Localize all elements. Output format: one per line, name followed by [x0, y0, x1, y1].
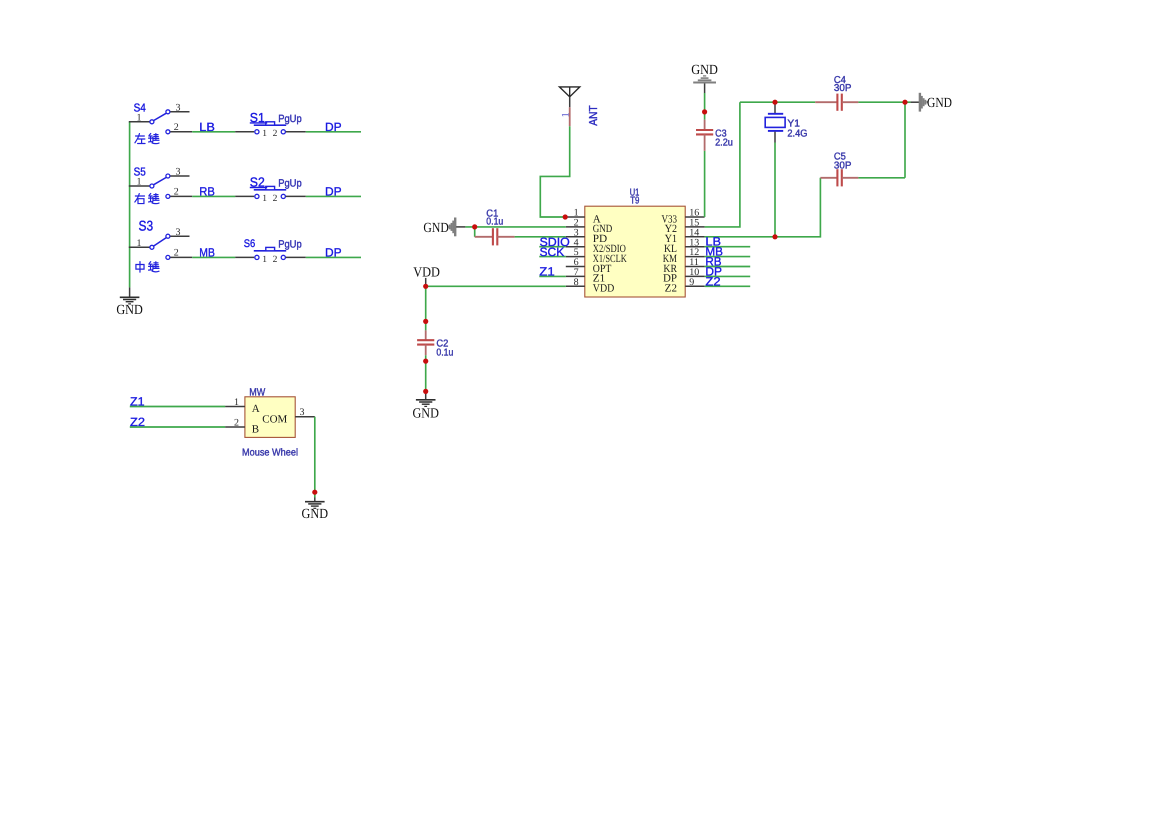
capacitor C2 — [417, 321, 434, 355]
wire net SDIO stub — [539, 246, 566, 248]
IC U1 pin name Y1 — [665, 233, 677, 245]
net label LB (U1 right) — [705, 235, 721, 249]
net label Z2 (U1 right) — [705, 274, 721, 288]
svg-text:VDD: VDD — [413, 266, 440, 281]
pushbutton S1 pin numbers 1 2 — [262, 129, 277, 139]
svg-text:LB: LB — [199, 120, 215, 134]
wire U1 pin 15 to top rail — [705, 102, 740, 227]
pushbutton S6 — [235, 247, 306, 259]
net label DP (U1 right) — [705, 264, 722, 278]
svg-text:COM: COM — [262, 414, 287, 426]
svg-text:2: 2 — [273, 129, 278, 139]
antenna pin 1 lead — [569, 107, 571, 126]
net label MB (U1 right) — [705, 245, 723, 259]
net label DP row 2 — [325, 184, 342, 198]
svg-text:GND: GND — [423, 221, 448, 236]
junction C2 bottom — [423, 359, 428, 364]
pushbutton S2 label PgUp — [278, 177, 302, 189]
IC U1 pin 15 number — [689, 218, 699, 229]
wire C4 to right GND — [858, 101, 905, 103]
IC U1 pin 11 number — [689, 257, 699, 268]
IC U1 pin 11 stub — [685, 266, 704, 268]
IC U1 pin 14 number — [689, 227, 699, 238]
svg-text:Mouse Wheel: Mouse Wheel — [242, 447, 298, 458]
IC U1 pin 6 number — [574, 257, 579, 268]
capacitor C5 value 30P — [834, 160, 852, 171]
IC U1 pin 5 stub — [566, 256, 585, 258]
capacitor C1 value 0.1u — [486, 217, 503, 228]
svg-text:2.2u: 2.2u — [715, 137, 733, 148]
wire antenna to U1 pin 1 — [540, 126, 569, 217]
junction C2 top — [423, 319, 428, 324]
wire C5 to right GND drop — [858, 102, 905, 178]
IC U1 pin name KR — [663, 263, 677, 275]
MW pin 2 number — [234, 418, 239, 429]
svg-text:Z2: Z2 — [130, 415, 145, 429]
IC U1 pin 16 stub — [685, 216, 704, 218]
IC U1 designator — [630, 187, 640, 198]
net label DP row 3 — [325, 245, 342, 259]
wire net RB — [192, 195, 235, 197]
IC U1 pin 6 stub — [566, 266, 585, 268]
antenna pin name ANT (rotated) — [588, 105, 600, 126]
IC U1 pin 8 stub — [566, 285, 585, 287]
IC U1 pin 7 number — [574, 267, 579, 278]
svg-text:8: 8 — [574, 277, 579, 288]
IC U1 pin name KL — [664, 243, 677, 255]
pushbutton S2 pin numbers 1 2 — [262, 194, 277, 204]
net label Z1 (MW) — [130, 395, 145, 409]
net label SCK — [540, 245, 565, 259]
MW pin name COM — [262, 414, 287, 426]
svg-text:PgUp: PgUp — [278, 238, 302, 250]
IC U1 pin 4 number — [574, 237, 579, 248]
pushbutton S2 — [235, 186, 306, 198]
net label RB (U1 right) — [705, 255, 721, 269]
switch S3 — [129, 234, 192, 259]
capacitor C2 designator — [436, 338, 448, 349]
junction VDD — [423, 284, 428, 289]
svg-text:1: 1 — [234, 397, 239, 408]
svg-text:DP: DP — [325, 245, 342, 259]
svg-text:ANT: ANT — [588, 105, 600, 126]
wire C1 to U1 pin 3 — [515, 236, 566, 238]
svg-text:PgUp: PgUp — [278, 113, 302, 125]
MW pin name A — [252, 403, 260, 415]
wire net MB — [192, 256, 235, 258]
switch S5 chinese label — [135, 194, 145, 204]
IC U1 pin name Z2 — [665, 283, 677, 295]
switch S4 pin number 3 — [176, 102, 181, 113]
svg-text:3: 3 — [176, 227, 181, 238]
svg-text:S6: S6 — [244, 238, 256, 250]
wire VDD down to C2 — [425, 286, 427, 321]
power port GND (left of C1) — [423, 218, 465, 237]
IC U1 pin 3 number — [574, 227, 579, 238]
wire GND bus vertical (left) — [129, 122, 131, 288]
IC U1 pin name Z1 — [593, 273, 605, 285]
crystal Y1 — [765, 102, 785, 142]
IC U1 pin name DP — [663, 273, 677, 285]
switch S3 pin number 2 — [174, 247, 179, 258]
svg-text:1: 1 — [137, 177, 142, 188]
net label SDIO — [540, 235, 570, 249]
svg-text:Z2: Z2 — [665, 283, 677, 295]
capacitor C5 — [820, 169, 858, 186]
junction Y1 top — [772, 100, 777, 105]
crystal Y1 value 2.4G — [787, 128, 807, 139]
switch S5 pin number 1 — [137, 177, 142, 188]
svg-text:GND: GND — [412, 407, 439, 422]
wire net DP row 3 — [306, 256, 361, 258]
junction right GND — [902, 100, 907, 105]
IC U1 pin name KM — [663, 253, 677, 265]
wire C1 tap drop — [474, 227, 476, 237]
svg-text:Z1: Z1 — [130, 395, 145, 409]
switch S5 pin number 3 — [176, 167, 181, 178]
svg-text:30P: 30P — [834, 83, 852, 94]
svg-text:2: 2 — [273, 255, 278, 265]
wire net SCK stub — [539, 256, 566, 258]
IC U1 pin 1 number — [574, 208, 579, 219]
switch S5 pin number 2 — [174, 186, 179, 197]
IC U1 pin name PD — [593, 233, 607, 245]
switch S3 designator — [139, 217, 154, 233]
net label Z1 (U1) — [539, 265, 555, 279]
svg-text:2: 2 — [174, 122, 179, 133]
svg-text:GND: GND — [116, 303, 143, 318]
switch S4 pin number 2 — [174, 122, 179, 133]
net label RB — [199, 184, 215, 198]
MW comment Mouse Wheel — [242, 447, 298, 458]
antenna pin number 1 (rotated) — [560, 112, 571, 117]
crystal Y1 designator — [787, 119, 800, 130]
svg-text:3: 3 — [176, 167, 181, 178]
wire top GND to C3 — [704, 93, 706, 120]
wire net Z2 (to MW pin 2) — [130, 426, 225, 428]
capacitor C1 designator — [486, 208, 498, 219]
wire GND to U1 pin 2 — [465, 226, 565, 228]
switch S3 pin number 1 — [137, 238, 142, 249]
wire net DP stub (U1 right) — [705, 275, 751, 277]
svg-text:3: 3 — [176, 102, 181, 113]
wire net DP row 1 — [306, 131, 361, 133]
MW pin 3 number — [300, 407, 305, 418]
IC U1 pin 2 number — [574, 218, 579, 229]
IC U1 value T9 — [630, 196, 640, 207]
svg-text:2: 2 — [273, 194, 278, 204]
IC U1 pin 8 number — [574, 277, 579, 288]
chinese jian glyph — [149, 193, 159, 203]
svg-text:VDD: VDD — [593, 283, 615, 295]
IC U1 pin name A — [593, 213, 601, 225]
ground GND (mouse wheel) — [302, 498, 329, 523]
pushbutton S6 pin numbers 1 2 — [262, 255, 277, 265]
svg-text:MW: MW — [249, 387, 265, 399]
IC U1 pin 9 stub — [685, 285, 704, 287]
MW pin 1 number — [234, 397, 239, 408]
chinese jian glyph — [149, 133, 159, 143]
switch S4 designator — [134, 102, 147, 114]
wire C2 to ground — [425, 355, 427, 391]
svg-text:1: 1 — [137, 238, 142, 249]
svg-text:DP: DP — [325, 120, 342, 134]
net label DP row 1 — [325, 120, 342, 134]
net label MB — [199, 245, 215, 259]
svg-text:GND: GND — [302, 507, 329, 522]
capacitor C2 value 0.1u — [436, 347, 453, 358]
wire net Z2 stub (U1 right) — [705, 285, 751, 287]
IC U1 pin 1 stub — [566, 216, 585, 218]
wire net Z1 stub (U1 pin 7) — [539, 275, 566, 277]
IC U1 pin 10 number — [689, 267, 699, 278]
wire net MB stub (U1 right) — [705, 256, 751, 258]
switch S3 pin number 3 — [176, 227, 181, 238]
net label Z2 (MW) — [130, 415, 145, 429]
pushbutton S6 designator — [244, 238, 256, 250]
capacitor C4 value 30P — [834, 83, 852, 94]
wire top rail — [740, 101, 815, 103]
svg-text:1: 1 — [560, 112, 571, 117]
IC U1 pin 15 stub — [685, 226, 704, 228]
IC U1 pin 7 stub — [566, 275, 585, 277]
svg-text:MB: MB — [199, 245, 215, 259]
chinese jian glyph — [149, 262, 159, 272]
junction MW ground — [312, 490, 317, 495]
svg-text:0.1u: 0.1u — [486, 217, 503, 228]
wire U1 pin 14 to C5 — [705, 178, 821, 237]
svg-text:PgUp: PgUp — [278, 177, 302, 189]
IC U1 pin 16 number — [689, 208, 699, 219]
wire C3 to U1 pin 16 — [704, 151, 706, 217]
wire MW COM to ground — [314, 417, 316, 498]
pushbutton S2 designator — [250, 175, 267, 190]
wire net DP row 2 — [306, 195, 361, 197]
IC U1 pin 10 stub — [685, 275, 704, 277]
svg-text:0.1u: 0.1u — [436, 347, 453, 358]
IC U1 pin name GND — [593, 223, 613, 235]
IC U1 pin name X1/SCLK — [593, 253, 627, 265]
pushbutton S1 designator — [250, 110, 267, 125]
svg-text:B: B — [252, 424, 259, 436]
svg-text:9: 9 — [689, 277, 694, 288]
IC U1 pin 13 stub — [685, 246, 704, 248]
net label LB — [199, 120, 215, 134]
switch S4 chinese label — [135, 134, 145, 144]
capacitor C3 value 2.2u — [715, 137, 733, 148]
power port VDD — [413, 266, 440, 287]
ground GND (switch bus) — [116, 287, 143, 318]
IC U1 pin 4 stub — [566, 246, 585, 248]
svg-text:S3: S3 — [139, 217, 154, 233]
wire net RB stub (U1 right) — [705, 266, 751, 268]
IC U1 pin 14 stub — [685, 236, 704, 238]
switch S5 designator — [134, 167, 146, 179]
junction U1 pin 1 — [563, 214, 568, 219]
MW pin name B — [252, 424, 259, 436]
junction C1 tap — [472, 224, 477, 229]
IC U1 pin name X2/SDIO — [593, 243, 626, 255]
wire net LB stub (U1 right) — [705, 246, 751, 248]
svg-text:2: 2 — [174, 247, 179, 258]
svg-text:1: 1 — [137, 112, 142, 123]
svg-text:Z2: Z2 — [705, 274, 721, 288]
encoder MW (Mouse Wheel) — [225, 397, 315, 438]
IC U1 pin 2 stub — [566, 226, 585, 228]
IC U1 pin 12 number — [689, 247, 699, 258]
switch S5 — [129, 174, 192, 198]
svg-text:2: 2 — [174, 186, 179, 197]
svg-text:GND: GND — [927, 96, 952, 111]
wire Y1 to U1 pin 14 rail — [774, 143, 776, 237]
junction C3 top — [702, 109, 707, 114]
IC U1 pin name Y2 — [665, 223, 677, 235]
capacitor C4 — [815, 94, 858, 111]
svg-text:T9: T9 — [630, 196, 640, 207]
IC U1 pin 9 number — [689, 277, 694, 288]
pushbutton S1 — [235, 122, 306, 134]
junction GND (below C2) — [423, 389, 428, 394]
svg-text:SCK: SCK — [540, 245, 565, 259]
IC U1 body — [585, 206, 685, 297]
capacitor C5 designator — [834, 152, 846, 163]
svg-text:RB: RB — [199, 184, 215, 198]
svg-text:30P: 30P — [834, 160, 852, 171]
IC U1 pin 3 stub — [566, 236, 585, 238]
svg-text:2.4G: 2.4G — [787, 128, 807, 139]
IC U1 pin name VDD — [593, 283, 615, 295]
wire net LB — [192, 131, 235, 133]
antenna ANT — [559, 87, 579, 107]
svg-text:Z1: Z1 — [539, 265, 555, 279]
svg-text:1: 1 — [262, 194, 267, 204]
switch S3 chinese label — [136, 262, 144, 272]
capacitor C1 — [475, 228, 515, 245]
IC U1 pin 5 number — [574, 247, 579, 258]
IC U1 pin name V33 — [662, 213, 678, 225]
wire net Z1 (to MW pin 1) — [130, 406, 225, 408]
capacitor C3 — [696, 120, 713, 151]
IC U1 pin 13 number — [689, 237, 699, 248]
pushbutton S1 label PgUp — [278, 113, 302, 125]
svg-text:1: 1 — [262, 255, 267, 265]
svg-text:2: 2 — [234, 418, 239, 429]
capacitor C3 designator — [715, 128, 727, 139]
power port GND (top right) — [905, 93, 952, 112]
junction Y1 bottom — [772, 234, 777, 239]
ground GND (top, above C3) — [691, 63, 718, 93]
svg-text:DP: DP — [325, 184, 342, 198]
MW designator — [249, 387, 265, 399]
pushbutton S6 label PgUp — [278, 238, 302, 250]
wire VDD to U1 pin 8 — [426, 285, 566, 287]
svg-text:1: 1 — [262, 129, 267, 139]
ground GND (below C2) — [412, 391, 439, 421]
switch S4 pin number 1 — [137, 112, 142, 123]
capacitor C4 designator — [834, 75, 846, 86]
switch S4 — [129, 110, 192, 134]
IC U1 pin name OPT — [593, 263, 612, 275]
IC U1 pin 12 stub — [685, 256, 704, 258]
svg-text:A: A — [252, 403, 260, 415]
svg-text:3: 3 — [300, 407, 305, 418]
